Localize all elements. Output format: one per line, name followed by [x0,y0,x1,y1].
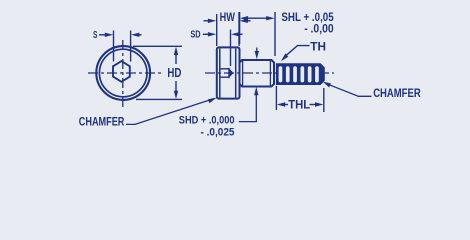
shoulder chamfer lines [242,60,244,86]
SD arrows [203,32,243,36]
SD extension line (socket depth) [230,30,232,67]
thread relief slots [279,66,319,82]
SHL dimension line [240,16,275,20]
head chamfer line right [235,48,237,97]
arrow down to shoulder top [255,48,259,60]
horizontal centerline of circle [88,72,161,74]
CHAMFER (left) leader [126,98,217,125]
HD bottom extension line [136,98,182,100]
side view centerline [205,72,334,74]
svg-text:THL: THL [288,100,310,112]
svg-text:HW: HW [220,12,235,24]
svg-text:SHD + .0,000: SHD + .0,000 [179,114,235,126]
HW extension lines [216,14,218,46]
thread (side view) [276,64,324,85]
vertical centerline of circle [122,40,124,109]
HW arrows [204,19,251,23]
svg-text:S: S [93,30,98,41]
svg-text:- .0,00: - .0,00 [304,21,334,35]
svg-text:TH: TH [310,41,326,53]
CHAMFER (right) leader [323,82,372,97]
S left arrow [99,33,113,37]
HD top extension line [133,45,182,47]
svg-text:CHAMFER: CHAMFER [373,86,421,100]
hex socket hidden detail (side view) [220,68,233,78]
S right arrow [131,33,142,37]
THL dimension [277,102,324,106]
S extension line left [113,31,115,62]
SHL extension lines [239,12,241,44]
svg-text:CHAMFER: CHAMFER [79,115,125,129]
THL extension lines [275,86,277,110]
svg-text:- .0,025: - .0,025 [201,127,235,139]
shoulder (side view) [240,60,275,87]
S extension line right [130,31,132,62]
TH leader [281,46,310,62]
head chamfer line left [219,48,221,97]
svg-text:SD: SD [190,30,200,41]
outer circle (head diameter, end view) [96,46,150,100]
HD dimension line with arrows [174,47,178,100]
head (side view) [217,47,240,98]
SHD leader (elbow up to shoulder bottom) [239,87,259,122]
hex socket (end view) [113,61,130,82]
inner circle (chamfer edge, end view) [99,49,147,97]
svg-text:HD: HD [167,65,181,80]
